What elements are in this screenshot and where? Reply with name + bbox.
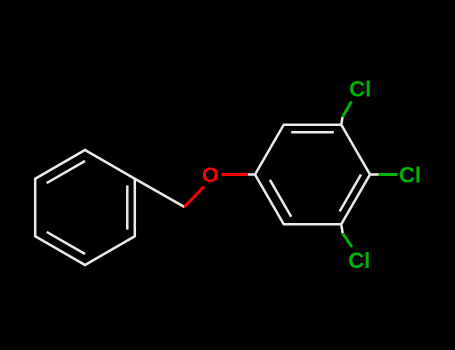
svg-text:Cl: Cl — [399, 163, 421, 188]
svg-text:Cl: Cl — [348, 248, 370, 273]
svg-text:Cl: Cl — [349, 77, 371, 102]
svg-text:O: O — [202, 163, 219, 187]
